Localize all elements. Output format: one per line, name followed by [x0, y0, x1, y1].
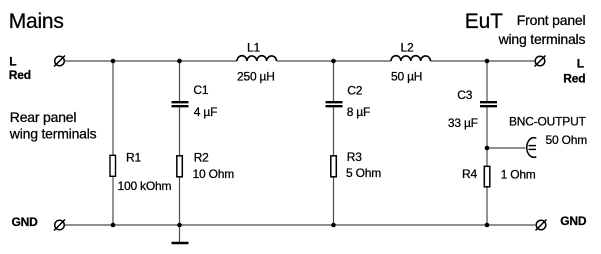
wire branch C1 R2 upper [179, 61, 181, 101]
resistor R1 [110, 155, 116, 176]
svg-text:50 µH: 50 µH [391, 70, 422, 84]
wire branch C2 R3 upper [333, 61, 335, 101]
resistor R3 [331, 156, 337, 177]
svg-text:Mains: Mains [9, 10, 64, 33]
terminal L mains (circle with slash) [54, 56, 65, 67]
connector BNC (coax socket symbol) [527, 138, 537, 158]
svg-text:R1: R1 [126, 150, 141, 164]
svg-text:GND: GND [560, 214, 587, 228]
svg-text:GND: GND [12, 215, 39, 229]
svg-text:wing terminals: wing terminals [498, 31, 586, 47]
terminal GND EuT (circle with slash) [536, 220, 547, 231]
svg-text:C1: C1 [193, 83, 208, 97]
svg-text:Red: Red [563, 72, 585, 86]
junction dot top R1 [111, 59, 116, 64]
svg-text:Rear panel: Rear panel [10, 109, 77, 125]
svg-text:1 Ohm: 1 Ohm [501, 168, 536, 182]
wire top L rail segment 2 [277, 60, 392, 62]
inductor L1 [237, 56, 277, 61]
junction dot top C2 [331, 59, 336, 64]
wire branch C1 R2 lower [179, 107, 181, 242]
inductor L2 [391, 56, 431, 61]
capacitor C3 [480, 102, 497, 106]
wire BNC branch [487, 147, 526, 149]
svg-text:EuT: EuT [465, 10, 503, 33]
svg-text:BNC-OUTPUT: BNC-OUTPUT [509, 115, 587, 129]
junction dot bottom R2 [177, 223, 182, 228]
terminal L EuT (circle with slash) [535, 56, 546, 67]
svg-text:L1: L1 [247, 41, 260, 55]
junction dot top C1 [177, 59, 182, 64]
capacitor C1 [172, 102, 189, 106]
junction dot bottom R3 [331, 223, 336, 228]
wire top L rail segment 3 [431, 60, 536, 62]
capacitor C2 [326, 102, 343, 106]
wire bottom GND rail [65, 224, 537, 226]
wire branch C3 R4 upper [486, 61, 488, 101]
junction dot bottom R4 [485, 223, 490, 228]
junction dot bottom R1 [111, 223, 116, 228]
svg-text:R4: R4 [462, 167, 477, 181]
wire branch R1 [112, 61, 114, 225]
resistor R4 [484, 166, 490, 187]
svg-text:R3: R3 [347, 150, 362, 164]
svg-text:50 Ohm: 50 Ohm [546, 133, 588, 147]
wire top L rail segment 1 [65, 60, 238, 62]
svg-text:C2: C2 [347, 84, 362, 98]
svg-text:R2: R2 [194, 150, 209, 164]
svg-text:L: L [9, 54, 16, 68]
svg-text:C3: C3 [457, 88, 472, 102]
svg-text:250 µH: 250 µH [237, 70, 275, 84]
svg-text:wing terminals: wing terminals [9, 126, 97, 142]
svg-text:10 Ohm: 10 Ohm [193, 167, 235, 181]
svg-text:100 kOhm: 100 kOhm [118, 179, 172, 193]
junction dot top C3 [485, 59, 490, 64]
wire branch C2 R3 lower [333, 107, 335, 225]
svg-text:Red: Red [9, 68, 31, 82]
wire branch C3 R4 lower [486, 107, 488, 225]
svg-text:4 µF: 4 µF [194, 105, 217, 119]
svg-text:33 µF: 33 µF [448, 116, 478, 130]
terminal GND mains (circle with slash) [54, 220, 65, 231]
svg-text:L: L [577, 57, 584, 71]
svg-text:L2: L2 [401, 41, 414, 55]
svg-text:5 Ohm: 5 Ohm [346, 166, 381, 180]
ground symbol [172, 242, 189, 245]
svg-text:Front panel: Front panel [517, 12, 586, 28]
svg-text:8 µF: 8 µF [347, 105, 370, 119]
junction dot BNC branch [485, 146, 490, 151]
resistor R2 [177, 156, 183, 177]
